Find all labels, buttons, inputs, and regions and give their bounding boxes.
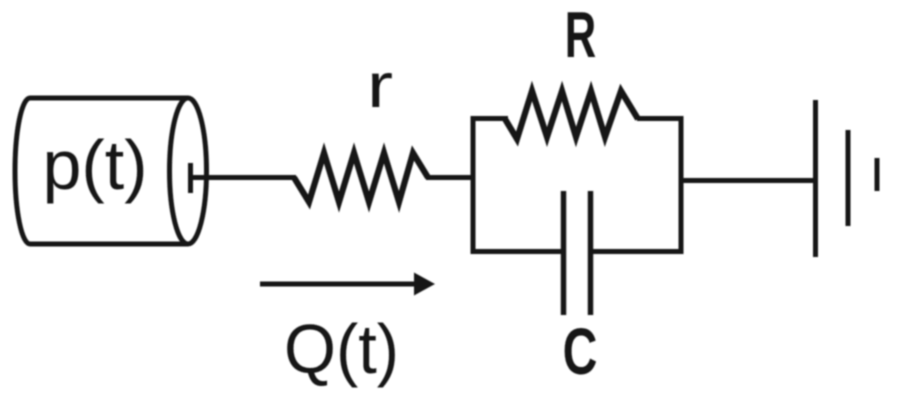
top branch wire left segment [471, 116, 509, 121]
svg-text:Q(t): Q(t) [284, 310, 399, 389]
bottom branch wire right segment [591, 249, 684, 254]
svg-text:p(t): p(t) [43, 126, 148, 204]
svg-text:R: R [565, 0, 596, 71]
capacitor C right plate [588, 191, 594, 315]
ground middle bar [846, 130, 851, 226]
wire parallel node to ground [681, 178, 816, 183]
resistor R zigzag [505, 91, 638, 139]
flow arrow Q(t) shaft [260, 282, 418, 287]
node left vertical wire of parallel RC loop [471, 116, 476, 254]
flow arrow Q(t) head [414, 273, 435, 296]
wire resistor r to parallel node [426, 175, 476, 180]
bottom branch wire left segment [471, 249, 564, 254]
pressure source p(t) cylinder body top [30, 96, 188, 101]
pressure source cylinder body bottom [30, 242, 188, 247]
ground short bar [875, 158, 880, 191]
node right vertical wire of parallel RC loop [679, 116, 684, 254]
source output terminal tick [188, 163, 193, 193]
pressure source cylinder right face ellipse [170, 98, 207, 244]
pressure source cylinder left end cap arc [15, 98, 30, 244]
svg-text:r: r [367, 50, 393, 121]
wire source to resistor r [191, 175, 297, 180]
ground long bar [813, 100, 818, 257]
resistor r zigzag [294, 153, 428, 202]
capacitor C left plate [561, 191, 567, 315]
svg-text:C: C [563, 316, 598, 389]
top branch wire right segment [637, 116, 684, 121]
